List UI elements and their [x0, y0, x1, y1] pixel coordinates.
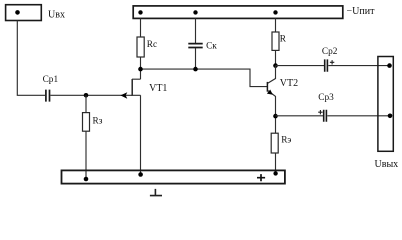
node: junction dot at Rз top — [84, 93, 89, 98]
wire: Rз to bottom rail — [85, 131, 87, 179]
wire: collector node to Cр2 — [276, 65, 325, 67]
node: dot in output box (bottom) — [388, 114, 393, 119]
wire: Cр3 to output box bottom — [327, 115, 390, 117]
transistor VT2 — [266, 82, 268, 92]
wire: rail to Ск — [195, 18, 197, 43]
node: rail dot under Rэ — [273, 171, 277, 175]
svg-text:Rз: Rз — [93, 117, 103, 127]
wire: Cр2 to output box top — [328, 65, 389, 67]
svg-text:VT2: VT2 — [280, 78, 298, 89]
wire: Uвх down and right to Cр1 — [17, 21, 45, 96]
power rail box (top) — [133, 6, 343, 19]
node: junction dot VT1 drain — [138, 67, 143, 72]
svg-text:Cр2: Cр2 — [322, 47, 338, 57]
node: rail dot above Rc — [138, 10, 142, 14]
output load box Uвых — [378, 57, 393, 152]
polarity + of Cр3 — [318, 110, 322, 114]
node: dot inside Uвх box — [15, 10, 20, 15]
node: junction dot VT2 emitter — [273, 114, 278, 119]
svg-text:Uвх: Uвх — [48, 10, 65, 21]
wire: Ск down to drain node wire — [195, 48, 197, 69]
resistor Rз — [83, 113, 90, 132]
svg-text:VT1: VT1 — [149, 83, 167, 94]
wire: rail to R to VT2 collector — [275, 18, 277, 65]
polarity + in ground rail — [257, 174, 265, 181]
wire: Rэ to bottom rail — [275, 153, 277, 173]
resistor Rc — [137, 37, 144, 57]
ground symbol — [150, 189, 162, 196]
node: rail dot under VT1 source — [138, 172, 143, 177]
polarity + of Cр2 — [330, 60, 334, 64]
resistor Rэ — [271, 133, 278, 153]
svg-text:Uвых: Uвых — [375, 159, 399, 170]
node: dot in output box (top) — [387, 63, 392, 68]
wire: emitter node to Cр3 — [276, 115, 324, 117]
svg-text:Cк: Cк — [206, 42, 217, 52]
ground rail box (bottom) — [62, 170, 285, 183]
capacitor Cр2 — [325, 59, 328, 71]
capacitor Ск — [188, 44, 202, 48]
wire: VT1 drain node across to VT2 base (with step) — [141, 69, 268, 87]
node: junction dot under Ск — [193, 67, 198, 72]
node: rail dot above R — [273, 10, 277, 14]
input source box Uвх — [6, 5, 42, 21]
capacitor Cр3 — [324, 110, 327, 122]
node: rail dot under Rз — [84, 177, 89, 182]
wire: VT2 emitter node to Rэ — [275, 116, 277, 133]
svg-text:Rс: Rс — [147, 40, 157, 50]
capacitor Cр1 — [46, 90, 50, 102]
wire: Cр1 to VT1 gate (through Rз node) — [50, 94, 132, 96]
resistor R — [272, 32, 279, 50]
svg-text:Cр3: Cр3 — [318, 93, 334, 103]
transistor VT1 — [131, 79, 133, 96]
node: junction dot VT2 collector — [273, 63, 278, 68]
svg-text:R: R — [280, 35, 287, 45]
wire: rail to Rc to VT1 drain — [140, 18, 142, 79]
svg-text:−Uпит: −Uпит — [347, 6, 376, 17]
svg-text:Cр1: Cр1 — [43, 75, 59, 85]
wire: node down to Rз — [85, 95, 87, 112]
node: rail dot above Ск — [193, 10, 197, 14]
svg-text:Rэ: Rэ — [281, 135, 291, 145]
